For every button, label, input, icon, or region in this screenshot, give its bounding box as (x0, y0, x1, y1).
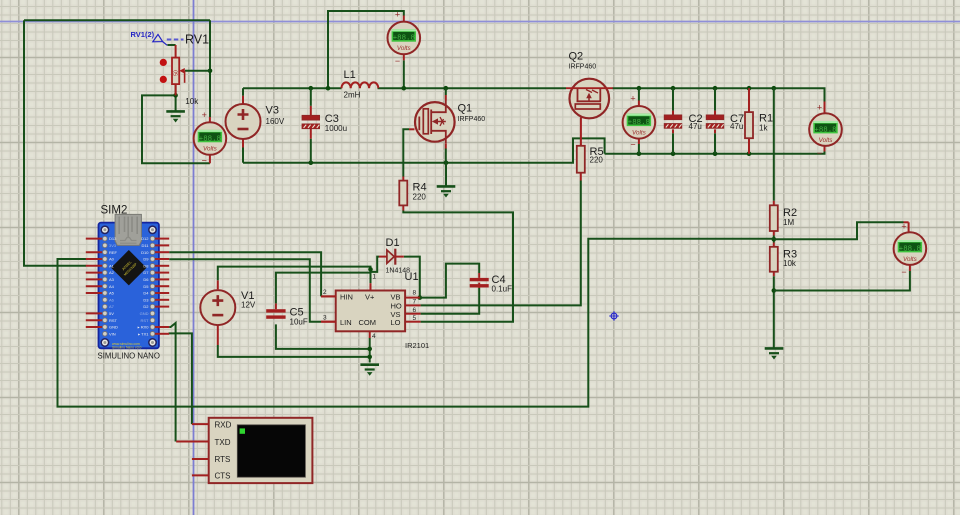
svg-text:A5: A5 (109, 291, 115, 296)
svg-text:47u: 47u (689, 122, 702, 131)
svg-text:L1: L1 (344, 69, 356, 81)
svg-text:+: + (395, 10, 400, 20)
capacitor C4 0.1uF (470, 278, 489, 288)
capacitor C7 47u (706, 115, 723, 128)
svg-text:IRFP460: IRFP460 (458, 116, 486, 123)
wire Arduino TX1 to terminal RXD (169, 333, 192, 424)
svg-text:8: 8 (413, 290, 417, 297)
node C2 bottom (671, 151, 676, 156)
svg-text:CTS: CTS (215, 472, 231, 481)
RV1 terminal red dot bottom (160, 76, 167, 83)
wire top-left rail from corner to RV1 wiper column (24, 19, 210, 21)
wire RV1 wiper to column (185, 70, 210, 72)
svg-text:LIN: LIN (340, 318, 352, 327)
voltage source V3 160V (226, 104, 261, 139)
svg-text:Q2: Q2 (569, 51, 584, 63)
svg-text:5V: 5V (109, 311, 114, 316)
svg-text:D2: D2 (143, 304, 149, 309)
svg-text:RXD: RXD (215, 420, 232, 429)
svg-text:1k: 1k (759, 124, 768, 133)
svg-text:RV1: RV1 (185, 33, 209, 47)
svg-text:−: − (630, 140, 635, 150)
svg-text:5: 5 (413, 315, 417, 322)
SIM2 USB connector (115, 214, 141, 245)
node C3 top (309, 86, 314, 91)
svg-text:▸ RX0: ▸ RX0 (138, 325, 150, 330)
ground (437, 186, 456, 196)
svg-text:4: 4 (372, 333, 376, 340)
svg-text:D4: D4 (143, 291, 149, 296)
wire lower output rail (605, 146, 825, 154)
RV1 bottom pin stub (175, 84, 177, 95)
svg-text:RTS: RTS (215, 455, 231, 464)
wire voltmeter VM3 stubs (638, 88, 640, 100)
wire RV1 top connection (167, 44, 175, 46)
mosfet Q2 IRFP460 (566, 79, 613, 119)
svg-text:A1: A1 (109, 263, 115, 268)
svg-text:Volts: Volts (903, 256, 918, 263)
wire R3 bottom to voltmeter VM5 minus (774, 271, 910, 291)
diode D1 1N4148 (379, 249, 404, 265)
node R2 branch top (772, 86, 777, 91)
svg-text:A7: A7 (109, 304, 115, 309)
resistor R5 220 (577, 146, 585, 173)
node COM junction C5 (367, 347, 372, 352)
Arduino board SIM2 SIMULINO NANO (99, 223, 159, 349)
node Q1 source on rail (444, 160, 449, 165)
svg-text:1000u: 1000u (325, 124, 347, 133)
capacitor C3 1000u (302, 115, 319, 128)
wire C3 top to bus (310, 88, 312, 106)
ground (765, 348, 784, 358)
wire left rail down to Arduino A1 (24, 20, 86, 266)
svg-text:GND: GND (109, 325, 118, 330)
wire V3 minus to ground rail (242, 139, 244, 148)
wire V3 plus to bus (242, 88, 244, 96)
capacitor C2 47u (664, 115, 681, 128)
svg-text:U1: U1 (405, 271, 419, 283)
wire long A0 sense net (58, 239, 774, 407)
wire main top bus right of L1 (378, 87, 567, 89)
svg-text:SIMULINO NANO: SIMULINO NANO (98, 352, 160, 361)
svg-text:50: 50 (174, 70, 180, 76)
wire Q1 source down to rail and ground (445, 143, 447, 148)
wire C5 bottom to COM node (276, 324, 370, 349)
svg-text:▸ TX1: ▸ TX1 (138, 331, 149, 336)
wire voltmeter VM4 stubs (824, 102, 826, 114)
wire D1 cathode to VB pin 8 (404, 257, 420, 298)
RV1 terminal red dot top (160, 59, 167, 66)
svg-text:10uF: 10uF (290, 318, 308, 327)
wire V1 minus to COM node (217, 326, 219, 345)
wire U1 pin4 to ground (369, 331, 371, 338)
wire R1 link (748, 88, 750, 112)
svg-text:A0: A0 (109, 257, 115, 262)
svg-text:Q1: Q1 (458, 103, 473, 115)
wire main top bus right of Q2 (613, 88, 825, 101)
svg-text:+: + (630, 94, 635, 104)
svg-text:47u: 47u (730, 122, 743, 131)
potentiometer RV1 10k (172, 58, 180, 85)
svg-text:−: − (817, 148, 822, 158)
svg-text:V+: V+ (365, 293, 375, 302)
svg-text:VIN: VIN (109, 331, 116, 336)
svg-text:+: + (202, 110, 207, 120)
terminal pin CTS (192, 474, 209, 476)
node L1 loop left (326, 86, 331, 91)
svg-text:A3: A3 (109, 277, 115, 282)
node voltmeter VM2 bottom (402, 86, 407, 91)
inductor L1 2mH (342, 82, 379, 88)
wire R2 branch vertical (773, 88, 775, 201)
svg-text:+88.8: +88.8 (899, 245, 921, 253)
node VB junction at pin 8 (418, 295, 423, 300)
wire C5 top to V+ node (275, 303, 277, 309)
svg-text:Volts: Volts (632, 130, 647, 137)
SIM2 ATMEGA chip (111, 250, 146, 285)
SIM2 pin rows left and right (86, 236, 169, 336)
svg-text:220: 220 (413, 193, 427, 202)
svg-text:+: + (817, 103, 822, 113)
svg-text:1: 1 (373, 274, 377, 281)
node R3 bottom junction (772, 288, 777, 293)
wire HIN net from Arduino D10 (169, 252, 321, 296)
terminal pin RXD (192, 423, 209, 425)
node R2 R3 junction (772, 237, 777, 242)
svg-text:−: − (395, 56, 400, 66)
wire Q1 drain link (445, 88, 447, 95)
ground (360, 365, 379, 375)
resistor R4 220 (399, 181, 407, 206)
svg-text:D6: D6 (143, 277, 149, 282)
svg-text:VB: VB (391, 293, 401, 302)
virtual terminal instrument (209, 418, 313, 483)
svg-text:1M: 1M (783, 218, 794, 227)
svg-text:D3: D3 (143, 297, 149, 302)
svg-text:D9: D9 (143, 257, 149, 262)
node R1 bottom (747, 151, 752, 156)
wire ground rail (243, 138, 605, 162)
origin marker (609, 311, 619, 321)
voltmeter VM2 (388, 22, 421, 55)
voltmeter VM5 (894, 232, 927, 265)
wire C4 bottom to VS pin 6 (478, 283, 480, 288)
voltage source V1 12V (200, 290, 235, 325)
node RV1 bottom junction (173, 93, 178, 98)
svg-text:2mH: 2mH (344, 91, 361, 100)
svg-text:D7: D7 (143, 270, 149, 275)
svg-text:220: 220 (590, 156, 604, 165)
wire Arduino RX0 to terminal TXD (169, 323, 175, 442)
svg-text:12V: 12V (241, 301, 256, 310)
SIM2 corner holes (101, 226, 156, 346)
svg-text:REF: REF (109, 250, 118, 255)
svg-text:LO: LO (391, 318, 401, 327)
wire R2 R3 middle junction (773, 231, 775, 236)
svg-text:RST: RST (109, 318, 118, 323)
capacitor C5 10uF (266, 309, 285, 319)
svg-text:A4: A4 (109, 284, 115, 289)
voltmeter VM4 (809, 113, 842, 146)
wire LIN net from Arduino D9 (169, 259, 321, 322)
svg-text:3: 3 (323, 315, 327, 322)
svg-text:RST: RST (141, 318, 150, 323)
svg-text:TXD: TXD (215, 438, 231, 447)
svg-text:D5: D5 (143, 284, 149, 289)
node C2 top (671, 86, 676, 91)
sheet border vertical blue line (193, 0, 195, 515)
RV1 top pin stub (175, 45, 177, 58)
svg-text:D11: D11 (141, 243, 149, 248)
wire R3 bottom to ground (773, 272, 775, 277)
ground (166, 111, 185, 121)
svg-text:+: + (901, 222, 906, 232)
svg-text:Simulino Nano v3.0: Simulino Nano v3.0 (112, 345, 142, 349)
svg-text:6: 6 (413, 307, 417, 314)
wire C7 link (714, 88, 716, 154)
voltmeter VM1 (194, 122, 227, 155)
node C3 bottom (309, 160, 314, 165)
U1 pin 2 HIN stub (321, 295, 336, 297)
svg-text:D1: D1 (386, 237, 400, 249)
svg-text:+88.8: +88.8 (628, 119, 650, 127)
wire Q2 gate to R5 (maroon link) (580, 118, 582, 146)
svg-text:7: 7 (413, 299, 417, 306)
svg-text:A6: A6 (109, 297, 115, 302)
svg-text:IR2101: IR2101 (405, 341, 429, 350)
svg-text:D13: D13 (109, 236, 117, 241)
svg-text:COM: COM (359, 318, 377, 327)
RV1 blue actuator label RV1(2) (131, 30, 184, 45)
svg-text:160V: 160V (266, 117, 285, 126)
svg-text:+88.8: +88.8 (814, 126, 836, 134)
gate driver U1 IR2101 (336, 291, 405, 332)
svg-text:A2: A2 (109, 270, 115, 275)
node R1 top (747, 86, 752, 91)
wire V1 plus to U1 pin1 V+ node (217, 280, 219, 289)
U1 pin numbers (323, 274, 417, 340)
node RV1 wiper junction (208, 69, 213, 74)
wire Q1 gate to R4 (409, 128, 415, 130)
svg-text:Volts: Volts (203, 146, 218, 153)
svg-text:D8: D8 (143, 263, 149, 268)
mosfet Q1 IRFP460 (415, 101, 455, 144)
wire C3 stubs (310, 106, 312, 116)
wire R4 bottom to LO pin of U1 (402, 205, 404, 210)
node C7 bottom (713, 151, 718, 156)
sheet border horizontal blue line (0, 21, 960, 23)
wire C3 bottom to rail (310, 139, 312, 163)
resistor R3 10k (770, 247, 778, 272)
node V+ junction above U1 pin 1 (368, 267, 373, 272)
wire D1 anode from V+ node (371, 257, 380, 272)
node C7 top (713, 86, 718, 91)
svg-text:−: − (901, 267, 906, 277)
svg-text:Volts: Volts (397, 45, 412, 52)
svg-text:3V3: 3V3 (109, 243, 117, 248)
node Q1 drain (444, 86, 449, 91)
U1 pin 3 LIN stub (321, 321, 336, 323)
wire divider junction to voltmeter VM5 plus (774, 222, 904, 239)
svg-text:+88.8: +88.8 (393, 35, 415, 43)
wire top loop over L1 (328, 11, 404, 88)
voltmeter VM3 (623, 106, 656, 139)
wire VB to C4 top (420, 264, 479, 298)
svg-text:D12: D12 (141, 236, 149, 241)
terminal pin TXD (176, 441, 209, 443)
RV1 wiper arrow (179, 68, 185, 83)
svg-text:D10: D10 (141, 250, 149, 255)
wire RV1 wiper column down to voltmeter VM1 plus (209, 20, 211, 117)
node voltmeter VM3 bottom (637, 151, 642, 156)
terminal pin RTS (192, 458, 209, 460)
svg-text:IRFP460: IRFP460 (569, 64, 597, 71)
node COM junction V1 (367, 355, 372, 360)
wire RV1 bottom to ground and left branch (142, 84, 210, 163)
svg-text:2: 2 (323, 289, 327, 296)
svg-text:+88.8: +88.8 (199, 135, 221, 143)
svg-text:V3: V3 (266, 105, 279, 117)
node voltmeter VM3 top (637, 86, 642, 91)
svg-text:10k: 10k (783, 259, 797, 268)
wire voltmeter VM2 to bus (403, 60, 405, 88)
svg-text:GND: GND (140, 311, 149, 316)
svg-text:10k: 10k (185, 97, 199, 106)
svg-text:0.1uF: 0.1uF (492, 285, 513, 294)
wire main top bus left of L1 (243, 87, 342, 89)
wire C2 link (672, 88, 674, 154)
svg-text:RV1(2): RV1(2) (131, 30, 155, 39)
wire voltmeter VM1 minus stub link (209, 155, 211, 164)
wire R5 bottom to HO pin of U1 (580, 173, 582, 181)
U1 pin labels (340, 293, 402, 328)
svg-text:−: − (202, 156, 207, 166)
resistor R2 1M (770, 205, 778, 231)
resistor R1 1k (745, 112, 753, 138)
svg-text:Volts: Volts (819, 137, 834, 144)
svg-text:SIM2: SIM2 (101, 205, 128, 217)
svg-text:HIN: HIN (340, 293, 353, 302)
